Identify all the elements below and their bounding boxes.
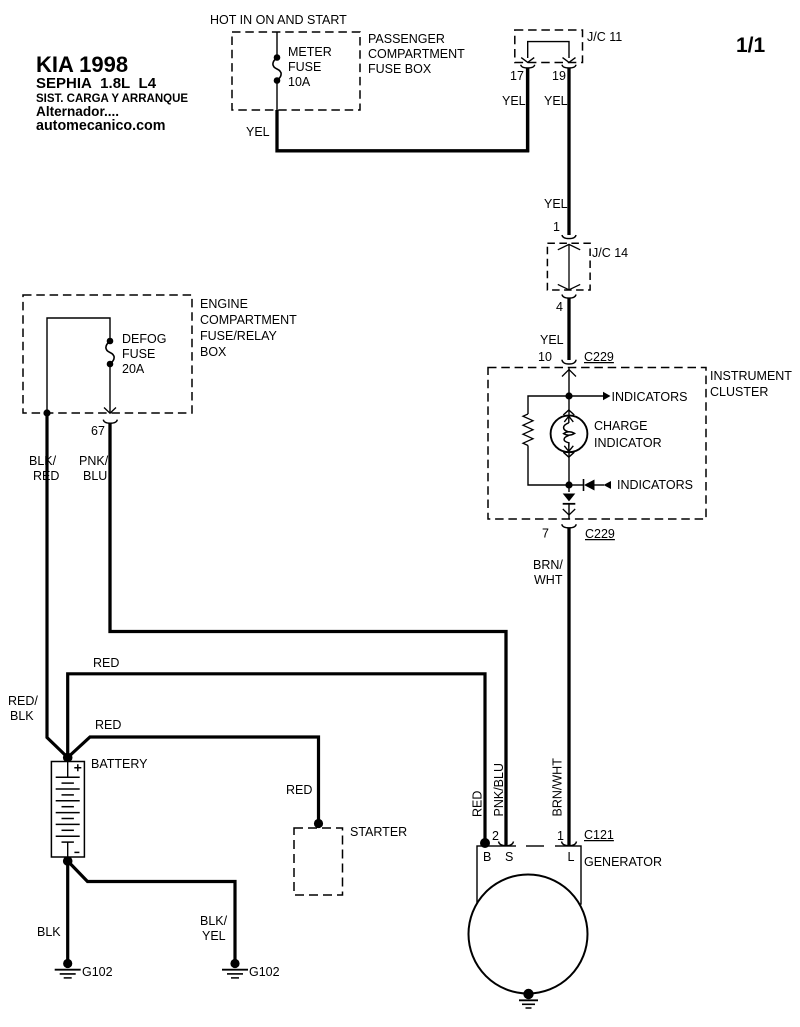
wire YEL J/C14 to C229 — [567, 298, 570, 360]
svg-text:PASSENGER: PASSENGER — [368, 32, 445, 46]
wire exiting cluster — [568, 504, 570, 519]
wire BLK/YEL battery to G102 — [68, 861, 235, 960]
svg-text:G102: G102 — [82, 965, 113, 979]
svg-text:FUSE BOX: FUSE BOX — [368, 62, 432, 76]
label PNK/BLU — [79, 454, 109, 483]
wire BRN/WHT cluster to generator L — [567, 528, 570, 845]
svg-text:1/1: 1/1 — [736, 34, 766, 57]
engine compartment fuse/relay box (dashed) — [23, 295, 192, 413]
svg-text:COMPARTMENT: COMPARTMENT — [200, 313, 297, 327]
dashed gap in connector edge — [516, 845, 555, 848]
wire entering cluster — [568, 368, 570, 397]
svg-text:YEL: YEL — [202, 929, 226, 943]
svg-text:RED: RED — [286, 783, 312, 797]
wire PNK/BLU to generator S — [110, 423, 506, 845]
instrument cluster box (dashed) — [488, 368, 706, 520]
battery internal stub top — [67, 762, 69, 778]
ground generator case — [519, 1000, 538, 1008]
svg-text:YEL: YEL — [540, 333, 564, 347]
svg-text:INDICATORS: INDICATORS — [612, 390, 688, 404]
diode D (right, pointing left) — [584, 479, 605, 491]
svg-text:PNK/BLU: PNK/BLU — [492, 763, 506, 817]
label INSTRUMENT CLUSTER — [710, 369, 792, 399]
starter box (dashed) — [294, 828, 343, 895]
svg-text:CHARGE: CHARGE — [594, 419, 647, 433]
svg-text:FUSE: FUSE — [122, 347, 155, 361]
svg-text:BRN/: BRN/ — [533, 558, 563, 572]
svg-text:BLK/: BLK/ — [200, 914, 228, 928]
svg-text:67: 67 — [91, 424, 105, 438]
svg-text:PNK/: PNK/ — [79, 454, 109, 468]
svg-text:INSTRUMENT: INSTRUMENT — [710, 369, 792, 383]
arrow down pin 67 — [104, 408, 116, 414]
svg-text:1: 1 — [557, 829, 564, 843]
svg-text:KIA 1998: KIA 1998 — [36, 52, 128, 77]
battery plus sign — [74, 764, 81, 771]
connector cup C229 top — [562, 360, 576, 364]
svg-text:10: 10 — [538, 350, 552, 364]
node battery positive — [63, 753, 73, 763]
svg-text:19: 19 — [552, 69, 566, 83]
wire to INDICATORS right (top) — [569, 395, 603, 397]
wire BLK battery to G102 — [66, 861, 69, 960]
connector cup pin 19 — [562, 65, 576, 68]
svg-text:1: 1 — [553, 220, 560, 234]
arrow up into cluster — [562, 370, 576, 377]
node junction top — [565, 392, 572, 399]
svg-text:BLU: BLU — [83, 469, 107, 483]
svg-text:17: 17 — [510, 69, 524, 83]
arrowhead right — [603, 392, 611, 400]
svg-text:RED/: RED/ — [8, 694, 38, 708]
svg-text:SEPHIA 1.8L L4: SEPHIA 1.8L L4 — [36, 75, 157, 92]
svg-text:ENGINE: ENGINE — [200, 297, 248, 311]
wire to diode right — [569, 484, 583, 486]
node exit left wire — [43, 409, 50, 416]
node generator B terminal — [480, 838, 490, 848]
connector cup pin 17 — [521, 65, 535, 68]
wire RED battery to starter — [68, 737, 319, 822]
wire BLK/RED to battery — [47, 413, 68, 758]
node battery negative — [63, 856, 73, 866]
svg-text:C229: C229 — [585, 527, 615, 541]
svg-text:automecanico.com: automecanico.com — [36, 118, 166, 134]
svg-text:G102: G102 — [249, 965, 280, 979]
wire YEL pin19 down to J/C14 — [567, 68, 570, 235]
label CHARGE INDICATOR — [594, 419, 662, 450]
svg-text:Alternador....: Alternador.... — [36, 104, 119, 119]
connector cup J/C14 bottom — [562, 295, 576, 299]
svg-text:BLK/: BLK/ — [29, 454, 57, 468]
svg-text:BOX: BOX — [200, 345, 227, 359]
node junction bottom — [565, 481, 572, 488]
svg-text:STARTER: STARTER — [350, 825, 407, 839]
label PASSENGER COMPARTMENT FUSE BOX — [368, 32, 465, 76]
svg-text:J/C 14: J/C 14 — [592, 246, 628, 260]
ground G102 left — [55, 959, 81, 978]
connector cup J/C14 top — [562, 235, 576, 239]
label RED/BLK — [8, 694, 38, 723]
svg-text:INDICATORS: INDICATORS — [617, 478, 693, 492]
svg-text:7: 7 — [542, 527, 549, 541]
battery internal stub bottom — [67, 842, 69, 861]
label ENGINE COMPARTMENT FUSE/RELAY BOX — [200, 297, 297, 359]
label DEFOG FUSE 20A — [122, 332, 166, 376]
connector cup generator L — [562, 842, 577, 846]
wire pin17 down to horizontal — [526, 68, 529, 152]
label METER FUSE 10A — [288, 45, 332, 89]
generator body circle — [469, 875, 588, 994]
junction block J/C 11 (dashed) — [515, 30, 583, 63]
svg-text:C121: C121 — [584, 828, 614, 842]
svg-text:L: L — [568, 850, 575, 864]
svg-text:C229: C229 — [584, 350, 614, 364]
svg-text:BLK: BLK — [10, 709, 34, 723]
svg-text:4: 4 — [556, 300, 563, 314]
arrow down pin 17 — [521, 58, 534, 63]
connector cup pin 67 — [103, 420, 117, 424]
title block KIA 1998 — [36, 52, 188, 134]
wire from fuse to box edge — [276, 81, 278, 111]
svg-text:FUSE/RELAY: FUSE/RELAY — [200, 329, 278, 343]
arrow down pin 19 — [563, 58, 576, 63]
chevron below lamp — [563, 452, 574, 457]
svg-text:BLK: BLK — [37, 925, 61, 939]
battery cell plates — [56, 777, 80, 842]
svg-text:RED: RED — [471, 791, 485, 817]
svg-text:INDICATOR: INDICATOR — [594, 436, 662, 450]
svg-text:YEL: YEL — [502, 94, 526, 108]
svg-text:YEL: YEL — [246, 125, 270, 139]
svg-text:GENERATOR: GENERATOR — [584, 855, 662, 869]
wire fuse to box edge — [109, 364, 111, 413]
fuse DEFOG FUSE 20A — [106, 338, 114, 368]
connector cup generator S — [499, 842, 514, 846]
node generator ground terminal — [523, 989, 533, 999]
svg-text:2: 2 — [492, 829, 499, 843]
svg-text:HOT IN ON AND START: HOT IN ON AND START — [210, 13, 347, 27]
svg-text:CLUSTER: CLUSTER — [710, 385, 768, 399]
svg-text:RED: RED — [95, 718, 121, 732]
arrowhead left INDICATORS — [604, 481, 612, 489]
svg-text:COMPARTMENT: COMPARTMENT — [368, 47, 465, 61]
internal wire to defog fuse — [47, 318, 110, 413]
svg-text:YEL: YEL — [544, 197, 568, 211]
arrow down exiting — [563, 509, 575, 515]
node starter terminal — [314, 819, 323, 828]
lamp filament — [564, 415, 575, 452]
battery minus sign — [74, 851, 79, 853]
svg-text:B: B — [483, 850, 491, 864]
label BLK/YEL — [200, 914, 228, 943]
label BLK/RED — [29, 454, 59, 483]
connector cup C229 bottom — [562, 524, 576, 528]
svg-text:BATTERY: BATTERY — [91, 757, 148, 771]
J/C 11 internal bracket wire — [528, 42, 569, 58]
svg-text:METER: METER — [288, 45, 332, 59]
svg-text:J/C 11: J/C 11 — [587, 30, 622, 44]
svg-text:10A: 10A — [288, 75, 311, 89]
svg-text:20A: 20A — [122, 362, 145, 376]
J/C 14 internal double arrow — [558, 244, 580, 289]
chevron above lamp — [563, 410, 574, 415]
charge indicator lamp circle — [551, 415, 588, 452]
wire left branch bottom — [528, 446, 569, 486]
svg-text:DEFOG: DEFOG — [122, 332, 166, 346]
wire YEL from fuse box to J/C11 pin 17 — [277, 68, 528, 151]
wire junction to lamp — [568, 396, 570, 415]
generator box — [477, 846, 581, 904]
wire RED battery to generator B — [68, 674, 485, 842]
battery outline — [51, 762, 84, 858]
passenger compartment fuse box (dashed) — [232, 32, 360, 110]
wire lamp to lower node — [568, 452, 570, 493]
wire into meter fuse — [276, 32, 278, 56]
svg-text:S: S — [505, 850, 513, 864]
label BRN/WHT — [533, 558, 563, 587]
ground G102 right — [222, 959, 248, 978]
wire left branch top — [528, 396, 569, 414]
svg-text:RED: RED — [93, 656, 119, 670]
svg-text:BRN/WHT: BRN/WHT — [551, 758, 565, 817]
svg-text:YEL: YEL — [544, 94, 568, 108]
junction block J/C 14 (dashed) — [547, 243, 590, 290]
diode down to connector — [563, 494, 576, 504]
svg-text:WHT: WHT — [534, 573, 563, 587]
resistor R (cluster) — [523, 414, 533, 446]
fuse METER FUSE 10A — [273, 54, 281, 84]
svg-text:FUSE: FUSE — [288, 60, 321, 74]
